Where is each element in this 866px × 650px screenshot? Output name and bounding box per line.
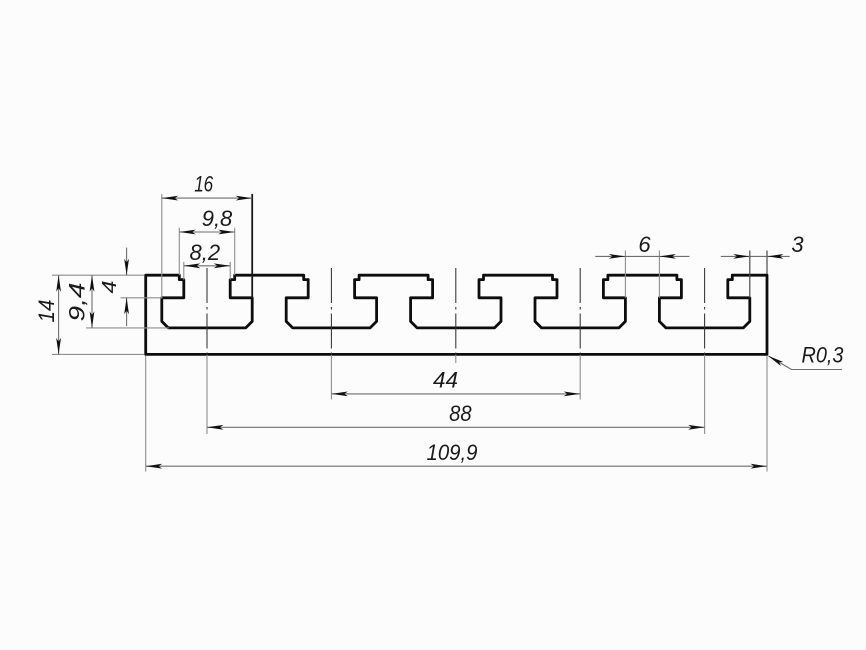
svg-text:R0,3: R0,3 — [802, 343, 845, 368]
dimension 4 (outside arrows) — [126, 248, 128, 276]
extension line below plate right corner — [766, 356, 768, 472]
leader R0,3 — [769, 356, 792, 370]
centerline slot 4 — [579, 268, 581, 355]
dimension 3 (outside arrows) — [721, 255, 790, 257]
svg-text:109,9: 109,9 — [427, 440, 478, 465]
svg-text:8,2: 8,2 — [190, 240, 221, 265]
dimension 88 — [207, 426, 705, 428]
svg-text:44: 44 — [433, 368, 458, 393]
extension line 6 right — [658, 251, 660, 298]
centerline slot 5 — [704, 268, 706, 355]
centerline slot 2 — [330, 268, 332, 355]
extension line 6 left — [624, 251, 626, 298]
svg-text:16: 16 — [194, 172, 214, 197]
extension line 9.8 right — [234, 228, 236, 276]
extension line depth9.4 left — [86, 327, 169, 329]
svg-text:6: 6 — [638, 232, 651, 257]
centerline slot 1 — [206, 268, 208, 355]
extension line below plate left corner — [145, 356, 147, 472]
svg-text:9,8: 9,8 — [202, 206, 233, 231]
svg-text:88: 88 — [449, 401, 472, 426]
svg-text:4: 4 — [99, 281, 121, 294]
extension line 9.8 left — [178, 228, 180, 276]
extension line 8.2 left — [183, 262, 185, 280]
dimension 109,9 — [146, 465, 767, 467]
extension line 3 left — [749, 251, 751, 298]
extension line depth4 left — [121, 297, 163, 299]
dimension 9,4 — [91, 275, 93, 328]
dimension 16 — [162, 197, 252, 199]
extension line 3 right (plate edge) — [766, 251, 768, 275]
extension line top surface left — [52, 274, 144, 276]
dimension 8,2 — [184, 265, 230, 267]
dimension 14 — [58, 275, 60, 354]
extension line 8.2 right — [229, 262, 231, 280]
plate profile outline — [146, 275, 767, 354]
svg-text:9,4: 9,4 — [65, 283, 90, 322]
svg-text:14: 14 — [34, 300, 59, 323]
extension line plate bottom left — [52, 353, 144, 355]
centerline slot 3 — [455, 268, 457, 355]
svg-text:3: 3 — [791, 232, 804, 257]
dimension 9,8 — [179, 231, 234, 233]
dimension 6 (outside arrows) — [595, 255, 689, 257]
extension line 16 left — [161, 194, 163, 298]
dimension 44 — [331, 393, 580, 395]
extension line 16 right (dark) — [251, 194, 253, 298]
